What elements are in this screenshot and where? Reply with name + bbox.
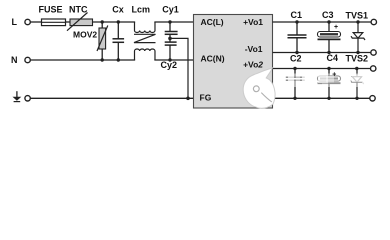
svg-text:L: L — [12, 17, 18, 27]
svg-text:Cx: Cx — [112, 5, 124, 15]
svg-text:Cy1: Cy1 — [162, 5, 179, 15]
terminal earth — [25, 96, 30, 101]
node L-junction 3 — [168, 20, 171, 23]
svg-text:N: N — [11, 55, 18, 65]
wire N rail left — [30, 59, 134, 61]
svg-text:AC(L): AC(L) — [201, 17, 224, 27]
wire +Vo1 rail — [273, 21, 372, 23]
node N-junction 3 — [168, 58, 171, 61]
output rails — [273, 22, 372, 98]
svg-text:TVS2: TVS2 — [346, 54, 369, 64]
common-mode choke Lcm — [132, 5, 156, 60]
svg-text:C1: C1 — [291, 10, 303, 20]
capacitor C3 (electrolytic) — [318, 10, 341, 54]
node FG junction — [186, 97, 190, 101]
terminal L — [25, 19, 30, 24]
bottom winding — [135, 49, 155, 60]
wire L terminal to fuse — [30, 21, 41, 23]
svg-text:C3: C3 — [322, 10, 334, 20]
wire NTC to choke (L rail) — [93, 21, 135, 23]
fuse FUSE — [39, 5, 66, 26]
capacitor Cy2 — [161, 42, 178, 70]
svg-text:NTC: NTC — [69, 5, 88, 15]
node N-junction 2 — [117, 58, 120, 61]
svg-text:MOV2: MOV2 — [73, 30, 97, 40]
module U1 (AC/DC converter) — [194, 15, 273, 109]
svg-text:TVS1: TVS1 — [346, 11, 369, 21]
choke core — [134, 34, 156, 42]
node L-junction 2 — [117, 20, 120, 23]
svg-text:Lcm: Lcm — [132, 5, 151, 15]
svg-text:C2: C2 — [290, 54, 302, 64]
wire FG/earth rail — [30, 97, 194, 99]
node L-junction 1 — [101, 20, 104, 23]
terminal -Vo1 — [371, 50, 376, 55]
wire Cy midpoint to FG — [170, 38, 188, 98]
TVS diode TVS1 — [346, 11, 369, 55]
svg-text:Cy2: Cy2 — [161, 60, 178, 70]
terminal -Vo2 — [370, 96, 375, 101]
watermark text band — [283, 74, 366, 88]
wire choke to module AC(L) — [155, 21, 194, 23]
capacitor C2 — [286, 54, 305, 101]
terminal N — [25, 57, 30, 62]
svg-text:-Vo1: -Vo1 — [245, 44, 263, 54]
varistor MOV2 — [73, 22, 108, 60]
watermark logo — [243, 68, 275, 108]
node Cy midpoint — [168, 37, 172, 41]
wire -Vo2 rail — [273, 97, 370, 99]
svg-text:+: + — [334, 24, 338, 31]
capacitor Cx — [112, 5, 124, 60]
terminal +Vo2 — [371, 66, 376, 71]
TVS diode TVS2 — [346, 54, 369, 101]
svg-text:+Vo1: +Vo1 — [243, 17, 263, 27]
svg-text:+Vo2: +Vo2 — [243, 59, 263, 69]
wire fuse to NTC — [66, 21, 71, 23]
capacitor C1 — [288, 10, 307, 54]
terminal +Vo1 — [371, 19, 376, 24]
capacitor Cy1 — [162, 5, 179, 42]
ground symbol — [13, 91, 22, 101]
wire +Vo2 rail — [273, 68, 371, 70]
node N-junction 1 — [101, 58, 104, 61]
top winding — [135, 22, 155, 33]
svg-text:FUSE: FUSE — [39, 5, 63, 15]
capacitor C4 (electrolytic) — [318, 53, 341, 100]
svg-text:+: + — [332, 71, 336, 78]
svg-text:C4: C4 — [327, 53, 339, 63]
svg-text:FG: FG — [200, 93, 212, 103]
wire choke to module AC(N) — [155, 59, 194, 61]
thermistor NTC — [67, 5, 93, 31]
wire -Vo1 rail — [273, 52, 372, 54]
svg-text:AC(N): AC(N) — [201, 54, 225, 64]
